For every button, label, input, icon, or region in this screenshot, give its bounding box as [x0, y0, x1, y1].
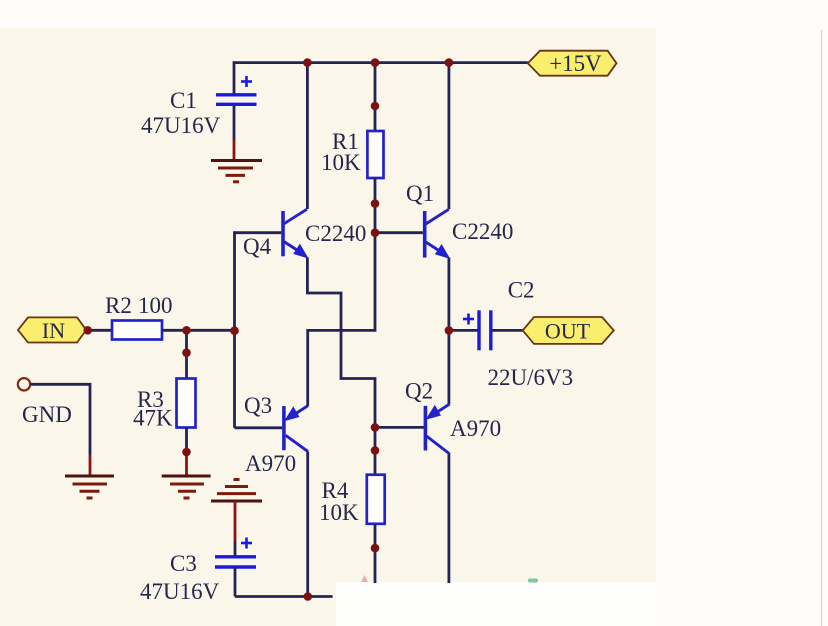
wire R3 branch: [185, 330, 188, 378]
resistor R4: [367, 475, 385, 524]
wire node to R4: [374, 427, 377, 474]
wire top +15V rail: [234, 61, 528, 64]
ground (GND): [65, 476, 114, 498]
svg-text:IN: IN: [42, 318, 65, 343]
wire R3 bottom to ground: [185, 428, 188, 456]
wire Q4 collector riser: [306, 63, 309, 209]
wire bottom rail: [235, 595, 333, 598]
resistor R3: [177, 379, 196, 428]
transistor Q3: [284, 406, 308, 452]
transistor Q1: [425, 209, 451, 259]
wire Q2 collector drop fading: [447, 453, 450, 583]
wire Q3 base: [235, 426, 283, 429]
svg-text:A970: A970: [245, 451, 296, 476]
svg-text:C2240: C2240: [305, 221, 366, 246]
svg-text:22U/6V3: 22U/6V3: [488, 365, 574, 390]
ground inverted (above C3): [211, 480, 262, 502]
svg-text:47U16V: 47U16V: [141, 113, 221, 138]
watermark pink: [361, 575, 368, 582]
wire Q1 base: [375, 231, 423, 234]
port IN: [18, 317, 86, 343]
svg-text:10K: 10K: [321, 150, 361, 175]
wire C1 top drop: [233, 61, 236, 94]
wire out node to C2: [449, 329, 478, 332]
svg-text:R2: R2: [105, 293, 132, 318]
wire R2 to input node: [162, 329, 235, 332]
ground (C1): [211, 161, 262, 182]
transistor Q2: [425, 404, 449, 453]
transistor Q4: [283, 209, 309, 258]
ground (R3): [162, 476, 211, 498]
resistor R2: [112, 321, 162, 340]
svg-text:Q3: Q3: [244, 393, 272, 418]
wire IN to R2: [88, 329, 112, 332]
wire R1 column from rail: [374, 63, 377, 131]
capacitor C3: [215, 538, 256, 568]
svg-text:C2240: C2240: [452, 219, 513, 244]
svg-text:Q4: Q4: [243, 234, 272, 259]
port OUT: [523, 317, 614, 344]
svg-text:47U16V: 47U16V: [140, 579, 220, 604]
wire input node vertical: [233, 231, 236, 427]
wire Q2 base: [375, 426, 424, 429]
svg-text:+15V: +15V: [549, 51, 602, 76]
terminal GND circle: [18, 378, 30, 390]
wire Q1 collector riser: [447, 63, 450, 210]
wire Q4 emitter to Q2 base (staircase): [307, 258, 375, 428]
capacitor C2: [463, 310, 491, 350]
wire C3 bottom: [234, 567, 237, 597]
svg-text:Q2: Q2: [405, 379, 433, 404]
wire GND to ground: [31, 384, 91, 455]
wire R1 bottom to node then left to Q3 emitter: [308, 178, 375, 406]
wire ground to C3: [234, 501, 237, 541]
svg-text:10K: 10K: [319, 500, 359, 525]
svg-text:47K: 47K: [133, 406, 173, 431]
port +15V: [528, 51, 617, 76]
svg-text:C3: C3: [170, 551, 197, 576]
watermark green: [528, 579, 538, 583]
svg-text:GND: GND: [22, 402, 72, 427]
resistor R1: [367, 131, 383, 178]
wire C1 bottom to ground: [233, 105, 236, 140]
svg-text:100: 100: [138, 293, 173, 318]
svg-text:A970: A970: [450, 416, 501, 441]
wire Q3 collector drop: [306, 452, 309, 597]
wire R4 bottom fading: [374, 524, 377, 583]
svg-text:OUT: OUT: [545, 319, 591, 344]
svg-text:Q1: Q1: [406, 181, 434, 206]
wire C2 to OUT port: [492, 329, 523, 332]
capacitor C1: [216, 76, 257, 104]
wire Q2 emitter riser: [447, 330, 450, 404]
wire Q1 emitter drop to out node: [447, 258, 450, 332]
svg-text:C1: C1: [170, 88, 197, 113]
svg-text:C2: C2: [508, 278, 535, 303]
wire Q4 base: [235, 231, 282, 234]
